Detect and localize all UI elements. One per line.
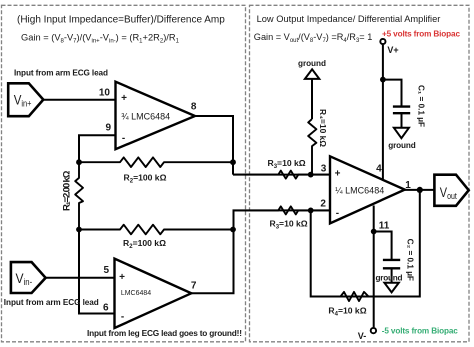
terminal V- circle <box>371 328 376 333</box>
wire: C2 to ground <box>391 268 393 282</box>
resistor R4 (vertical) <box>308 119 316 175</box>
svg-text:Input from arm ECG lead: Input from arm ECG lead <box>4 298 99 307</box>
op-amp U1 (3/4 LMC6484) <box>116 82 196 150</box>
svg-text:Input from arm ECG lead: Input from arm ECG lead <box>14 68 108 77</box>
svg-text:+: + <box>335 169 341 180</box>
wire: node V7 jog to right panel (pin 2) <box>234 210 331 229</box>
junction dot pin 11 <box>371 229 377 235</box>
svg-text:LMC6484: LMC6484 <box>121 290 151 297</box>
svg-text:(High Input Impedance=Buffer)/: (High Input Impedance=Buffer)/Difference… <box>17 15 225 26</box>
svg-text:Low Output Impedance/ Differen: Low Output Impedance/ Differential Ampli… <box>257 14 441 24</box>
svg-text:R₄=10 kΩ: R₄=10 kΩ <box>318 109 328 147</box>
node A junction dot <box>76 159 82 165</box>
connector Vout <box>434 175 468 206</box>
junction dot pin3/R4 <box>308 172 314 178</box>
ground symbol (below C1) <box>394 128 409 138</box>
svg-text:8: 8 <box>191 102 197 113</box>
terminal V+ circle <box>380 39 385 44</box>
junction dot pin2/feedback <box>308 208 314 214</box>
op-amp U2 (LMC6484) <box>115 259 192 328</box>
wire: pin 9 feedback <box>79 135 116 162</box>
svg-text:+5 volts from Biopac: +5 volts from Biopac <box>382 29 460 38</box>
svg-text:4: 4 <box>376 164 382 175</box>
wire: output feedback down <box>311 190 420 297</box>
wire: node V8 jog to right panel (pin 3) <box>233 174 330 176</box>
junction dot output <box>417 187 423 193</box>
resistor R2 (bottom) <box>79 225 233 235</box>
resistor R4 (bottom feedback) <box>335 292 374 301</box>
svg-text:ground: ground <box>388 141 416 150</box>
svg-text:+: + <box>121 93 127 104</box>
svg-text:-: - <box>122 133 125 144</box>
junction dot on V+ rail <box>380 77 386 83</box>
svg-text:ground: ground <box>298 59 326 68</box>
svg-text:-5 volts from Biopac: -5 volts from Biopac <box>382 326 458 335</box>
resistor R2 (top) <box>79 157 233 167</box>
wire: U1 output to node V8 <box>195 116 233 175</box>
wire: ground to R4 <box>311 79 313 119</box>
svg-text:10: 10 <box>99 87 111 98</box>
svg-text:9: 9 <box>106 123 112 134</box>
resistor R1 (vertical) <box>75 162 83 229</box>
wire: U2 output to node V7 <box>191 230 233 294</box>
right panel dashed border <box>250 5 470 342</box>
wire: V+ to C1 <box>383 80 402 107</box>
ground symbol (below C2) <box>384 283 398 293</box>
svg-text:¾ LMC6484: ¾ LMC6484 <box>121 111 170 121</box>
svg-text:-: - <box>336 208 339 219</box>
op-amp U3 (1/4 LMC6484) <box>330 156 405 223</box>
connector Vin- <box>11 262 46 293</box>
node B junction dot <box>76 227 82 233</box>
capacitor C1 <box>393 105 410 107</box>
left panel dashed border <box>2 5 246 342</box>
svg-text:¼ LMC6484: ¼ LMC6484 <box>335 185 384 195</box>
wire: U3 output to Vout <box>405 189 435 191</box>
svg-text:2: 2 <box>320 198 326 209</box>
wire: pin 11 down to V- <box>373 206 375 328</box>
wire: node B down to pin 6 <box>79 230 115 314</box>
svg-text:C₁ = 0.1 µF: C₁ = 0.1 µF <box>417 85 426 127</box>
svg-text:ground: ground <box>376 274 403 283</box>
svg-text:+: + <box>119 272 125 283</box>
capacitor C2 <box>383 259 400 261</box>
node V7 junction dot <box>230 227 236 233</box>
svg-text:7: 7 <box>191 281 197 292</box>
svg-text:3: 3 <box>321 164 327 175</box>
svg-text:Input from leg ECG lead goes t: Input from leg ECG lead goes to ground!! <box>87 328 242 338</box>
svg-text:C₂ = 0.1 µF: C₂ = 0.1 µF <box>405 239 414 281</box>
wire: C1 to ground <box>401 113 403 127</box>
node V8 junction dot <box>230 159 236 165</box>
svg-text:6: 6 <box>103 303 109 314</box>
svg-text:5: 5 <box>104 265 110 276</box>
resistor R3 (top) with wire pin 3 <box>233 171 330 179</box>
svg-text:11: 11 <box>379 221 390 232</box>
wire: pin 11 to C2 <box>374 232 392 260</box>
connector Vin+ <box>8 83 43 116</box>
svg-text:V+: V+ <box>387 45 398 55</box>
wire pin10 <box>43 99 115 101</box>
wire: V+ rail down to pin 4 <box>382 45 384 181</box>
svg-text:V-: V- <box>358 331 367 341</box>
resistor R3 (bottom) with wire pin 2 <box>234 206 331 214</box>
wire pin 5 <box>46 277 115 279</box>
ground symbol (top, pointing up) <box>305 69 319 79</box>
svg-text:-: - <box>121 312 124 323</box>
svg-text:R₁=2.00 kΩ: R₁=2.00 kΩ <box>61 170 72 211</box>
